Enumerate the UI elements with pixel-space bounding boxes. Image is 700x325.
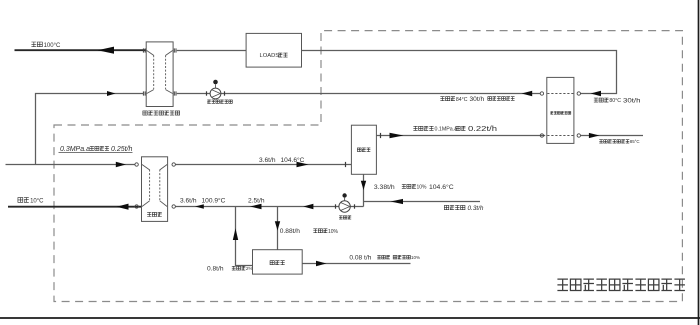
label 3.6t/h 104.6C [259,156,305,164]
arrow into HX3 right top pointing left [591,91,602,97]
svg-text:0.08 t/h: 0.08 t/h [349,254,371,261]
svg-text:0.25t/h: 0.25t/h [111,146,133,153]
heat exchanger HX3 middle water exchanger [540,77,580,143]
label secondary steam 0.1MPa.a saturated 0.22t/h [413,124,497,133]
arrow to separator pointing right [297,162,309,168]
svg-text:0.88t/h: 0.88t/h [280,228,300,235]
label 3.38t/h solids10% 104.6C [374,183,454,191]
label soft water 10C [18,198,44,205]
wire middle water HX1 to HX3 [177,93,540,95]
label 2.5t/h [248,198,265,205]
centrifuge box [253,250,303,274]
svg-text:10%: 10% [417,184,428,190]
svg-text:LOADS: LOADS [260,53,280,59]
wire steam supply line [6,164,135,166]
label 0.88t/h solids 10% [280,228,339,235]
wire separator bottom down [363,174,365,206]
svg-text:3.6t/h: 3.6t/h [180,198,197,205]
wire centrate return branch up [236,207,253,266]
svg-text:100°C: 100°C [44,43,61,49]
arrow middle water flowing left [522,91,533,97]
heat exchanger HX2 heater [135,157,175,222]
arrow steam into HX2 pointing right [116,162,126,168]
label pump P1 name [207,100,232,103]
arrow into HX2 pointing left [195,204,204,209]
svg-text:3.6t/h: 3.6t/h [259,157,276,164]
svg-text:30t/h: 30t/h [470,96,485,103]
wire hot water out (thick, top left) [15,49,147,51]
arrow circulation right pointing left [303,204,313,210]
arrow circulation mid pointing left [250,204,262,209]
label middle water 84C 30t/h to steam heater [440,96,514,103]
svg-text:84°C: 84°C [456,97,468,103]
svg-text:10%: 10% [411,255,420,260]
arrow condensate pointing right [589,133,600,138]
border line bottom edge [0,317,700,319]
label 0.3MPa.a saturated steam 0.25t/h underlined [59,146,133,153]
label secondary steam condensate 85C [599,139,639,144]
caption inside dashed frame is crystallizer unit equipment [557,279,685,290]
separator vessel [351,125,376,174]
label HX1 name [143,111,180,115]
arrow feed down [275,221,280,230]
svg-text:100.9°C: 100.9°C [202,197,226,205]
svg-text:0.3MPa.a: 0.3MPa.a [60,146,90,153]
wire separator steam out to HX3 [376,135,545,137]
arrow secondary steam pointing right [390,133,404,138]
wire waste water makeup [364,201,481,203]
wire HX3 condensate out [581,135,644,137]
wire centrifuge feed branch down [277,207,279,250]
arrow solids out pointing right [316,261,327,266]
arrow into HX1 left bottom pointing right [107,91,116,96]
wire centrifuge solids out [302,263,410,265]
label 3.6t/h 100.9C [180,197,226,205]
dashed frame crystallizer unit boundary [54,31,682,302]
label pump P2 name [339,216,351,219]
pump P1 hot media circulating pump [207,80,225,99]
svg-text:80°C: 80°C [609,98,621,104]
svg-text:3.38t/h: 3.38t/h [374,184,395,191]
label HX2 heater name [147,212,162,216]
border line right edge [698,0,700,325]
label middle water 80C 30t/h [594,98,641,105]
label hot water 100C [31,42,61,49]
arrow down from separator [361,181,366,190]
pump P2 circulation pump [336,193,355,212]
heat exchanger HX1 existing heat source heater [143,42,176,107]
label waste water makeup 0.3t/h underlined [444,205,484,212]
arrow makeup flowing left [391,199,404,204]
svg-text:0.3t/h: 0.3t/h [468,205,484,212]
wire main circulation line [175,206,363,208]
tick separator steam outlet [380,133,382,138]
svg-text:30t/h: 30t/h [623,98,641,105]
svg-text:104.6°C: 104.6°C [281,156,305,164]
svg-text:2.5t/h: 2.5t/h [248,198,265,205]
svg-text:0.22t/h: 0.22t/h [468,124,497,133]
wire HX1 to LOADS [177,50,246,52]
svg-text:104.6°C: 104.6°C [429,183,454,191]
wire steam branch up to HX1 left bottom [36,94,144,165]
label 0.8t/h solids 2% [207,266,254,273]
wire LOADS right to HX3 right top port [302,51,617,94]
tick separator inlet [345,162,347,167]
svg-text:10%: 10% [328,229,339,235]
label 0.08 t/h wet solids water content 10% [349,254,420,261]
svg-text:10°C: 10°C [30,198,44,204]
svg-text:85°C: 85°C [630,139,640,144]
svg-text:0.8t/h: 0.8t/h [207,266,224,273]
label HX3 name [550,112,570,115]
arrow return up [233,228,238,240]
LOADS box [246,33,301,67]
arrow hot water pointing left [98,47,115,54]
wire HX2 top right to separator [175,164,351,166]
svg-text:0.1MPa.a: 0.1MPa.a [435,127,458,133]
wire soft water out (thick, bottom left) [8,206,142,208]
arrow soft water pointing left [117,204,129,210]
